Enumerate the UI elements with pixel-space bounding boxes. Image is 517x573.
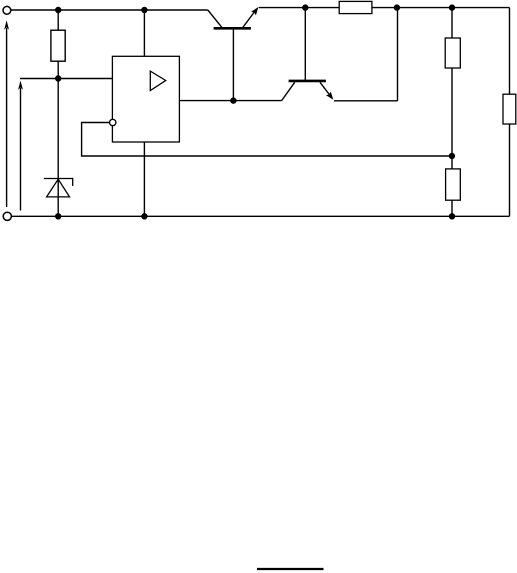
node bottom rail / zener xyxy=(56,214,61,219)
terminal output bottom xyxy=(3,212,11,220)
wire top rail left xyxy=(11,9,208,11)
wire Q2 base lead xyxy=(304,8,306,80)
wire reference to op-amp noninverting input xyxy=(20,78,113,80)
wire op-amp supply lead xyxy=(143,10,145,56)
node top rail / Q2 base xyxy=(303,5,308,10)
node reference xyxy=(56,76,61,81)
wire inverting input feedback xyxy=(82,123,452,157)
node bottom rail / op-amp xyxy=(142,214,147,219)
wire Q1 base lead xyxy=(232,29,234,101)
op-amp U1 xyxy=(112,56,179,142)
wire R1 bottom to zener xyxy=(57,61,59,216)
wire R2 top lead xyxy=(451,8,453,38)
wire R3 bottom lead xyxy=(451,200,453,216)
resistor R1 xyxy=(51,30,65,61)
node top rail / divider xyxy=(450,5,455,10)
wire Q2 emitter xyxy=(334,100,398,102)
node feedback divider xyxy=(449,154,454,159)
resistor R5 current sense xyxy=(339,1,372,13)
node top rail / R1 xyxy=(56,8,61,13)
transistor Q1 xyxy=(208,7,259,28)
wire Q2 emitter riser xyxy=(397,8,399,101)
node op-amp output / Q1 base xyxy=(231,98,236,103)
wire op-amp output xyxy=(179,100,281,102)
terminal input top xyxy=(3,6,11,14)
op-amp inverting input bubble xyxy=(110,119,116,125)
resistor R4 load xyxy=(503,94,516,124)
arrow reference voltage xyxy=(18,81,23,211)
wire R1 top lead xyxy=(57,10,59,30)
wire load branch to bottom rail xyxy=(509,124,511,216)
node top rail / op-amp supply xyxy=(142,8,147,13)
transistor Q2 xyxy=(282,81,334,101)
wire op-amp ground lead xyxy=(143,142,145,216)
node bottom rail / divider xyxy=(450,214,455,219)
wire R2 to R3 xyxy=(451,68,453,169)
wire load branch riser xyxy=(509,8,511,95)
wire bottom rail xyxy=(11,215,509,217)
wire top rail right of R5 xyxy=(372,7,510,9)
resistor R3 xyxy=(446,169,461,200)
node top rail / Q2 emitter xyxy=(394,5,399,10)
zener diode D1 xyxy=(44,178,73,197)
arrow input voltage xyxy=(4,20,9,207)
wire top rail right xyxy=(259,7,339,9)
footer line xyxy=(257,568,324,570)
resistor R2 xyxy=(445,38,460,68)
